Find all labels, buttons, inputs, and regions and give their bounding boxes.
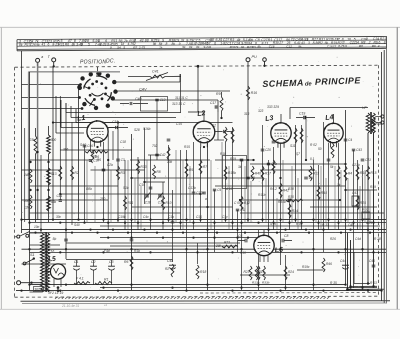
svg-text:S4C: S4C bbox=[80, 143, 87, 147]
wire bbox=[305, 119, 307, 160]
output transformer core bbox=[369, 112, 371, 134]
mains switch I1 bbox=[17, 235, 20, 238]
svg-text:C20: C20 bbox=[265, 148, 271, 152]
wire bbox=[353, 150, 355, 288]
wire bbox=[359, 186, 361, 230]
svg-text:6k: 6k bbox=[189, 45, 193, 49]
resistor R18 bottom bbox=[196, 265, 199, 279]
svg-text:R5: R5 bbox=[189, 168, 193, 172]
svg-text:8k: 8k bbox=[72, 43, 76, 47]
coil antenna 23k bbox=[34, 136, 37, 154]
wire bbox=[94, 166, 96, 222]
svg-text:C7b: C7b bbox=[271, 162, 277, 166]
wire bbox=[78, 85, 80, 221]
capacitor bbox=[167, 138, 171, 140]
coil 300 bbox=[47, 135, 51, 154]
heater wires L5 bbox=[53, 279, 55, 287]
wire bbox=[228, 166, 230, 230]
resistor R16 on PU wire bbox=[246, 86, 249, 100]
wire bbox=[221, 142, 223, 222]
wire bbox=[340, 170, 342, 222]
svg-text:C2: C2 bbox=[91, 260, 96, 264]
scan border left bbox=[0, 27, 2, 309]
svg-text:3F2 L4 19: 3F2 L4 19 bbox=[48, 291, 63, 295]
wire bbox=[240, 199, 340, 201]
capacitor C8 bbox=[246, 176, 249, 178]
wire bbox=[369, 190, 371, 222]
svg-text:C42: C42 bbox=[160, 153, 166, 157]
trimmer capacitor C18 bbox=[145, 194, 149, 196]
svg-text:R1: R1 bbox=[268, 38, 273, 42]
wire bbox=[244, 166, 246, 222]
resistor F41 horizontal bottom bbox=[74, 282, 90, 285]
wire bbox=[180, 150, 182, 230]
capacitor C7b bbox=[267, 162, 270, 164]
capacitor C5 bbox=[213, 188, 216, 190]
wire bbox=[110, 170, 112, 222]
wire bbox=[313, 160, 315, 290]
legs L6 bbox=[259, 255, 261, 262]
svg-text:# 25: # 25 bbox=[366, 221, 372, 225]
svg-text:PU: PU bbox=[252, 55, 258, 59]
wire nested corner 2 bbox=[350, 240, 352, 287]
wire bbox=[276, 198, 278, 230]
resistor R33 bbox=[137, 160, 140, 174]
wire bbox=[345, 110, 347, 285]
svg-text:SCHEMA: SCHEMA bbox=[262, 78, 304, 89]
capacitor bbox=[272, 140, 276, 142]
svg-text:5b: 5b bbox=[53, 237, 57, 241]
resistor 10k left bbox=[29, 195, 32, 209]
capacitor C20 bbox=[261, 148, 265, 150]
svg-text:250: 250 bbox=[99, 197, 106, 201]
scan border bottom bbox=[0, 308, 400, 310]
resistor R13 bbox=[309, 166, 312, 181]
wire nested corner 1 bbox=[347, 233, 349, 290]
wire bbox=[90, 122, 92, 150]
resistor R8 bbox=[153, 165, 156, 179]
svg-text:C8: C8 bbox=[284, 234, 288, 238]
wire bbox=[103, 142, 105, 222]
svg-text:L6: L6 bbox=[274, 247, 283, 255]
wire bbox=[320, 166, 322, 230]
svg-text:8k: 8k bbox=[172, 42, 176, 46]
wire bbox=[310, 206, 377, 208]
resistor bbox=[167, 147, 170, 160]
wire bbox=[140, 186, 142, 230]
svg-text:C4: C4 bbox=[348, 138, 352, 142]
wire terminal B down bbox=[37, 67, 39, 220]
svg-text:333 329: 333 329 bbox=[267, 105, 279, 109]
capacitor C10 bbox=[89, 159, 92, 161]
svg-text:R 33: R 33 bbox=[322, 223, 329, 227]
svg-text:5: 5 bbox=[123, 46, 125, 50]
svg-text:9k: 9k bbox=[153, 42, 157, 46]
svg-text:R 28: R 28 bbox=[374, 237, 381, 241]
svg-text:88: 88 bbox=[145, 39, 149, 43]
svg-text:C18: C18 bbox=[120, 140, 126, 144]
resistor R22 mid bottom bbox=[171, 264, 174, 277]
junction dots upper bbox=[36, 117, 346, 208]
speaker terminal 2 bbox=[381, 121, 384, 124]
svg-text:2-75: 2-75 bbox=[138, 46, 145, 50]
svg-text:R11b: R11b bbox=[258, 193, 266, 197]
wire right column to border bbox=[382, 288, 385, 290]
wire bbox=[22, 248, 387, 250]
svg-text:R30: R30 bbox=[288, 195, 294, 199]
anode cap wire L4 bbox=[333, 114, 335, 123]
electrolytic capacitor C3 bbox=[108, 265, 115, 267]
svg-text:R7: R7 bbox=[203, 165, 207, 169]
resistor R6b bottom bbox=[130, 256, 133, 270]
svg-text:C17b: C17b bbox=[188, 186, 196, 190]
svg-text:PRINCIPE: PRINCIPE bbox=[315, 75, 362, 87]
wire bbox=[180, 74, 182, 113]
svg-text:R33b: R33b bbox=[262, 281, 270, 285]
svg-text:9: 9 bbox=[81, 43, 83, 47]
wire bbox=[100, 237, 258, 239]
wire bbox=[22, 169, 61, 171]
resistor R6 bbox=[91, 151, 94, 164]
svg-text:306: 306 bbox=[63, 148, 69, 152]
wire bbox=[328, 143, 330, 230]
svg-text:C18: C18 bbox=[145, 200, 151, 204]
wire bbox=[215, 159, 254, 161]
dot column L5 bbox=[57, 286, 60, 289]
svg-text:R9: R9 bbox=[216, 92, 221, 96]
wire bbox=[323, 122, 325, 252]
wire nest 4 bbox=[60, 100, 62, 128]
svg-text:6: 6 bbox=[48, 43, 50, 47]
svg-text:R34: R34 bbox=[292, 209, 298, 213]
svg-text:C13: C13 bbox=[160, 98, 166, 102]
wire bbox=[373, 133, 375, 285]
junction dot on dashed border bbox=[197, 65, 200, 68]
svg-text:302: 302 bbox=[35, 288, 41, 292]
wire nest 3 bbox=[75, 109, 77, 123]
capacitor C9 bbox=[304, 176, 308, 178]
svg-text:C19: C19 bbox=[299, 111, 305, 115]
wire bbox=[40, 155, 42, 233]
svg-text:R8: R8 bbox=[359, 44, 363, 48]
tube L3 bbox=[271, 122, 291, 148]
wire bbox=[134, 178, 136, 222]
svg-text:43: 43 bbox=[140, 39, 144, 43]
wire bbox=[301, 125, 303, 230]
wire bbox=[156, 100, 158, 160]
capacitor C21 bbox=[361, 158, 365, 160]
parts table frame bbox=[17, 36, 387, 51]
coil S13 bbox=[47, 168, 51, 185]
svg-text:311 31 C: 311 31 C bbox=[175, 96, 188, 100]
resistor bbox=[300, 128, 303, 143]
power transformer secondary winding bbox=[46, 233, 49, 292]
capacitor bbox=[288, 198, 292, 200]
resistor R46 bottom right bbox=[322, 258, 325, 272]
resistor R17 bbox=[261, 166, 264, 181]
svg-text:2: 2 bbox=[368, 41, 371, 45]
svg-text:R6: R6 bbox=[65, 43, 69, 47]
svg-text:R6: R6 bbox=[124, 260, 128, 264]
wire bbox=[144, 128, 146, 204]
wire transformer to terminals bbox=[375, 116, 381, 118]
wire bbox=[65, 103, 67, 259]
svg-text:6: 6 bbox=[214, 42, 216, 46]
svg-text:C21b: C21b bbox=[352, 163, 360, 167]
wire bbox=[346, 189, 378, 191]
svg-text:R 82: R 82 bbox=[296, 222, 303, 226]
component box right of L2 bbox=[223, 156, 247, 189]
svg-text:R6: R6 bbox=[97, 158, 101, 162]
svg-text:8k: 8k bbox=[19, 43, 23, 47]
svg-text:R1b: R1b bbox=[134, 249, 140, 253]
wire bbox=[71, 122, 73, 225]
wire bbox=[334, 166, 336, 230]
resistors under L6 bbox=[257, 266, 260, 280]
svg-text:C10: C10 bbox=[139, 183, 145, 187]
resistor R34 bbox=[288, 204, 291, 218]
wire bbox=[168, 145, 170, 222]
svg-text:L1: L1 bbox=[77, 115, 86, 123]
wire bbox=[210, 160, 212, 230]
svg-text:9k: 9k bbox=[298, 45, 302, 49]
resistor R12 bbox=[240, 196, 243, 210]
switch II2 lower bbox=[23, 262, 26, 265]
svg-text:323: 323 bbox=[258, 109, 264, 113]
svg-text:C1: C1 bbox=[74, 260, 79, 264]
svg-text:R18: R18 bbox=[200, 270, 206, 274]
svg-text:5k: 5k bbox=[330, 165, 334, 169]
wire bbox=[268, 160, 270, 249]
wire bbox=[127, 160, 129, 230]
svg-text:10n: 10n bbox=[34, 225, 40, 229]
capacitor C11 bbox=[236, 208, 239, 210]
svg-text:3: 3 bbox=[308, 41, 310, 45]
solid border right outer bbox=[383, 50, 385, 303]
wire bbox=[237, 210, 239, 252]
wire bbox=[124, 160, 126, 230]
svg-text:43: 43 bbox=[301, 41, 305, 45]
wire bbox=[53, 122, 233, 124]
resistor bbox=[331, 143, 334, 158]
resistor R18b bbox=[224, 166, 227, 180]
svg-text:R 35: R 35 bbox=[330, 281, 337, 285]
svg-text:C1b: C1b bbox=[168, 215, 174, 219]
wire output transformer down 1 bbox=[367, 133, 369, 283]
svg-text:41: 41 bbox=[42, 43, 46, 47]
svg-text:63: 63 bbox=[252, 45, 256, 49]
resistor R42 bbox=[279, 183, 282, 198]
capacitor bbox=[240, 158, 244, 160]
capacitor bbox=[64, 238, 68, 240]
resistor R40 right bbox=[372, 117, 375, 133]
capacitor bbox=[202, 191, 206, 193]
wire switch left 1 bbox=[22, 84, 81, 86]
wire bbox=[30, 185, 119, 187]
wire switch right 1 bbox=[115, 81, 181, 83]
svg-text:R2: R2 bbox=[165, 267, 169, 271]
svg-text:R3: R3 bbox=[120, 171, 124, 175]
svg-text:4: 4 bbox=[209, 45, 211, 49]
wire bbox=[350, 240, 352, 288]
wire bbox=[260, 169, 314, 171]
resistor R73 left of L6 bbox=[222, 245, 238, 248]
dashed border bottom inner bbox=[200, 292, 377, 294]
wire output transformer down 2 bbox=[373, 133, 375, 286]
junction dots coil columns bbox=[29, 189, 31, 191]
svg-text:16: 16 bbox=[51, 250, 55, 254]
svg-text:7k: 7k bbox=[235, 45, 239, 49]
svg-text:HP: HP bbox=[362, 106, 367, 110]
junction dots nested corners bbox=[346, 288, 349, 291]
power transformer leads bbox=[30, 232, 43, 234]
svg-text:e1: e1 bbox=[104, 303, 108, 307]
svg-text:C16: C16 bbox=[196, 215, 202, 219]
capacitor C40 bbox=[129, 102, 131, 105]
wire bbox=[197, 243, 199, 264]
anode cap wire L3 bbox=[280, 114, 282, 123]
wire bbox=[282, 160, 284, 222]
wire bbox=[30, 284, 346, 286]
svg-text:CAV: CAV bbox=[139, 87, 147, 91]
svg-text:C16: C16 bbox=[269, 45, 275, 49]
svg-text:313 31 C: 313 31 C bbox=[172, 102, 186, 106]
wire bbox=[273, 147, 275, 230]
capacitor C46 bbox=[83, 144, 87, 146]
wire bbox=[59, 96, 61, 200]
svg-text:C12: C12 bbox=[286, 45, 292, 49]
svg-text:de: de bbox=[305, 81, 313, 87]
svg-text:1k: 1k bbox=[337, 183, 341, 187]
wire bbox=[200, 147, 202, 222]
capacitor C42 bbox=[155, 153, 158, 155]
label 302 bbox=[34, 287, 44, 292]
wire bbox=[232, 127, 234, 230]
capacitor C17 bbox=[214, 105, 216, 108]
svg-text:3k: 3k bbox=[238, 165, 242, 169]
wire switch left 2 bbox=[22, 97, 80, 99]
resistor R2 bbox=[71, 166, 74, 180]
wire nest 1 bbox=[65, 103, 67, 113]
wire bbox=[295, 125, 297, 222]
wire bbox=[297, 269, 324, 271]
wire bbox=[30, 159, 91, 161]
resistor R4 bbox=[344, 166, 347, 181]
svg-text:a: a bbox=[205, 197, 207, 201]
svg-text:L5: L5 bbox=[48, 255, 57, 263]
svg-text:S28: S28 bbox=[134, 128, 140, 132]
component box C43 right bbox=[352, 196, 359, 206]
tube L5 rectifier bbox=[50, 264, 65, 279]
wire bbox=[347, 178, 349, 222]
svg-text:R8: R8 bbox=[156, 170, 160, 174]
wire bbox=[86, 160, 88, 222]
tube L6 output bbox=[254, 234, 274, 255]
capacitor bbox=[171, 220, 175, 222]
svg-text:S7: S7 bbox=[296, 152, 300, 156]
wire bbox=[172, 190, 174, 262]
wire bbox=[362, 165, 364, 290]
wire bbox=[24, 128, 26, 222]
terminal T bbox=[52, 58, 56, 62]
svg-text:4,7k: 4,7k bbox=[270, 222, 276, 226]
tube L2 bbox=[193, 120, 215, 147]
svg-text:R10: R10 bbox=[240, 251, 246, 255]
svg-text:21-10-4e 31: 21-10-4e 31 bbox=[61, 304, 79, 308]
svg-text:8: 8 bbox=[384, 41, 386, 45]
svg-text:R19c: R19c bbox=[302, 265, 310, 269]
wire L3 anode rail bbox=[290, 107, 368, 109]
wire bbox=[130, 159, 210, 161]
scan speckles bbox=[22, 57, 382, 294]
capacitor bbox=[327, 158, 331, 160]
terminal PU 1 bbox=[246, 58, 250, 62]
wire bbox=[258, 230, 260, 290]
wire bbox=[297, 178, 299, 230]
svg-text:C4c: C4c bbox=[143, 215, 149, 219]
wire bbox=[60, 149, 132, 151]
svg-text:10k: 10k bbox=[167, 160, 173, 164]
svg-text:DC.: DC. bbox=[106, 59, 116, 65]
capacitor C16 between L3 L4 bbox=[303, 116, 305, 120]
wire bbox=[132, 206, 233, 208]
wire bbox=[318, 165, 320, 230]
wire switch right 2 bbox=[114, 90, 230, 92]
wire bbox=[21, 51, 23, 233]
svg-text:C19b: C19b bbox=[118, 215, 126, 219]
resistor R14 bbox=[356, 166, 359, 180]
svg-text:R 02: R 02 bbox=[310, 143, 317, 147]
capacitor at L2 grid bbox=[223, 130, 225, 133]
resistor 24k left bbox=[29, 169, 32, 183]
parts table row 3 text bbox=[110, 44, 380, 50]
svg-text:C43: C43 bbox=[356, 148, 362, 152]
wire bbox=[214, 190, 216, 252]
capacitor C4 bbox=[344, 138, 348, 140]
svg-text:F 4.1: F 4.1 bbox=[76, 277, 84, 281]
svg-text:C41: C41 bbox=[152, 70, 159, 74]
solid border bottom outer bbox=[21, 300, 391, 303]
resistor R24 bottom bbox=[284, 266, 287, 280]
dashed border top bbox=[15, 65, 379, 67]
wire grey chassis top bbox=[29, 71, 121, 73]
svg-text:S1: S1 bbox=[30, 253, 35, 257]
svg-text:313: 313 bbox=[244, 112, 250, 116]
wire power to L5 bbox=[42, 271, 51, 273]
svg-text:R31: R31 bbox=[58, 43, 64, 47]
capacitor C43 bbox=[352, 148, 355, 150]
svg-text:R10: R10 bbox=[165, 201, 171, 205]
wire from dashed border down bbox=[197, 66, 199, 112]
mains terminal bottom bbox=[17, 281, 21, 285]
svg-text:300: 300 bbox=[51, 138, 57, 142]
wire bbox=[52, 66, 54, 220]
svg-text:C8: C8 bbox=[251, 176, 255, 180]
wire bbox=[291, 166, 293, 222]
scan border top bbox=[0, 26, 400, 28]
svg-text:POSITION: POSITION bbox=[80, 59, 106, 65]
electrolytic capacitor C1 bbox=[73, 265, 80, 267]
svg-text:a: a bbox=[41, 55, 43, 59]
wire bbox=[381, 52, 383, 301]
pilot lamp wires bbox=[30, 244, 61, 246]
svg-text:R4-2: R4-2 bbox=[270, 187, 277, 191]
anode cap wire L2 bbox=[203, 112, 205, 121]
resistor R10 bbox=[162, 196, 165, 210]
resistor 230 horizontal mid bbox=[286, 199, 303, 202]
resistor R7 bbox=[199, 160, 202, 174]
solid border bottom outer 2 bbox=[22, 302, 386, 305]
